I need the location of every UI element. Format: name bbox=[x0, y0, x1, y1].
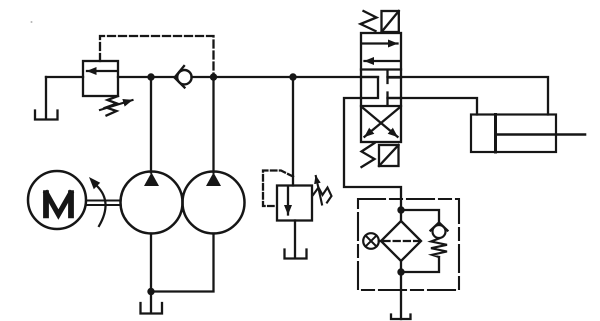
wire: pilot line (dashed) from unloading valve to downstream node bbox=[100, 36, 214, 77]
relief valve RV body bbox=[277, 186, 312, 221]
tank T3 (relief valve drain) bbox=[285, 250, 307, 259]
D1 top spring bbox=[361, 11, 377, 31]
tank T1 (unloading valve drain) bbox=[35, 111, 58, 120]
scan speck bbox=[31, 21, 33, 23]
D1 top position arrow (flow left) bbox=[365, 60, 400, 62]
wire: pump 1 riser bbox=[150, 77, 152, 173]
motor drive shaft (double line) bbox=[87, 201, 121, 206]
check valve C1 poppet ball bbox=[177, 70, 191, 84]
pump P2 circle bbox=[183, 172, 245, 234]
D1 top solenoid diagonal bbox=[382, 11, 399, 32]
node: junction filter inlet / bypass bbox=[397, 206, 404, 213]
node: junction main line / pump 1 riser bbox=[147, 73, 154, 80]
D1 bottom spring bbox=[362, 143, 375, 167]
wire: main line unloading valve to check valve seat bbox=[118, 76, 175, 78]
clogging indicator circle-X bbox=[363, 233, 379, 249]
cylinder barrel bbox=[471, 115, 556, 153]
wire: left drain drop to tank bbox=[45, 77, 47, 119]
node: junction main line / relief valve riser bbox=[289, 73, 296, 80]
filter F1 diamond bbox=[381, 221, 421, 261]
D1 centre position bypass U path bbox=[361, 77, 378, 98]
relief valve RV spring bbox=[313, 188, 332, 203]
D1 top position arrow (flow right) bbox=[363, 42, 398, 44]
D1 bottom position crossed arrow 2 bbox=[363, 108, 398, 137]
bypass check valve spring bbox=[431, 239, 447, 258]
pump P2 outlet triangle bbox=[206, 173, 221, 187]
cylinder rod bbox=[497, 133, 585, 136]
pump P1 outlet triangle bbox=[144, 173, 159, 187]
wire: line DCV right port A to cylinder rod end bbox=[388, 77, 549, 115]
rotation direction arrow bbox=[97, 186, 106, 226]
wire: filter outlet to tank bbox=[400, 261, 402, 319]
unloading valve V1 adjust arrow bbox=[100, 100, 133, 110]
D1 centre position blocked port A stub bbox=[388, 72, 402, 84]
wire: bypass branch bottom bbox=[401, 257, 439, 272]
electric motor M letter bbox=[45, 190, 72, 218]
check valve C1 seat bbox=[175, 66, 185, 88]
filter unit enclosure (dashed) bbox=[358, 199, 459, 290]
unloading valve V1 flow arrow bbox=[87, 70, 117, 72]
wire: main line check valve to DCV left port P bbox=[192, 76, 379, 78]
relief valve RV pilot line (dashed) bbox=[263, 171, 293, 207]
unloading valve V1 body bbox=[83, 61, 118, 96]
wire: main pressure line segment tank-branch to unloading valve bbox=[46, 76, 83, 78]
relief valve RV flow arrow bbox=[287, 187, 289, 215]
electric motor M circle bbox=[28, 171, 86, 229]
node: junction filter outlet / bypass bbox=[397, 268, 404, 275]
pump P1 circle bbox=[121, 172, 183, 234]
tank T4 (filter return) bbox=[391, 315, 411, 320]
unloading valve V1 spring bbox=[106, 96, 118, 116]
relief valve RV adjust arrow bbox=[316, 176, 322, 205]
bypass check valve seat bbox=[431, 223, 448, 231]
D1 bottom position crossed arrow 1 bbox=[365, 108, 400, 137]
directional valve D1 position divider lower bbox=[361, 105, 401, 107]
wire: indicator to filter connection bbox=[379, 240, 382, 242]
wire: relief valve drain bbox=[294, 221, 296, 259]
wire: bypass branch top bbox=[401, 210, 439, 223]
node: junction pump drains bbox=[147, 288, 154, 295]
D1 centre position blocked port B stub bbox=[388, 93, 402, 105]
D1 top solenoid box bbox=[382, 11, 399, 32]
D1 bottom solenoid diagonal bbox=[379, 145, 399, 166]
wire: relief valve riser bbox=[292, 77, 294, 186]
D1 bottom solenoid box bbox=[379, 145, 399, 166]
directional valve D1 position divider upper bbox=[361, 68, 401, 70]
wire: pump 2 riser bbox=[212, 77, 214, 173]
wire: pump 2 drain down and across bbox=[151, 234, 214, 292]
node: junction main line / pump 2 riser / pilot bbox=[210, 73, 217, 80]
wire: DCV port B to cylinder cap end bbox=[388, 98, 478, 115]
tank T2 (pump suction) bbox=[141, 303, 163, 314]
cylinder piston bbox=[494, 115, 497, 153]
wire: pump 1 drain down to tank bbox=[150, 234, 152, 314]
directional valve D1 body (3 position) bbox=[361, 33, 401, 142]
filter F1 element line (dashed) bbox=[384, 240, 419, 242]
wire: DCV left port T down and across to filter bbox=[344, 98, 401, 221]
bypass check valve ball bbox=[433, 225, 446, 238]
